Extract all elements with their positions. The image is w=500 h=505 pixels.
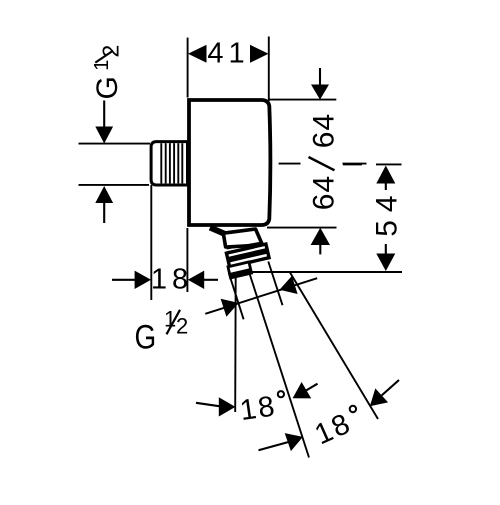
angle 18 first arrow left (219, 397, 236, 416)
angle 18 first text (238, 390, 278, 427)
spray edge line 36deg (290, 273, 378, 420)
dimension 64/64 top extension line (269, 99, 336, 101)
dimension 18 right leader (203, 279, 218, 281)
svg-text:18: 18 (151, 264, 193, 296)
angle 18 second leader left (259, 442, 289, 450)
angle 18 first leader left (196, 403, 220, 407)
dimension 64/64 top arrow stem (319, 68, 321, 87)
nozzle G1/2 arrowhead A (221, 299, 239, 317)
angle 18 second leader right (382, 380, 399, 395)
dimension 54 top stem (385, 182, 387, 190)
svg-text:64: 64 (308, 175, 341, 210)
dimension 64/64 top arrowhead (311, 85, 329, 100)
angle 18 second arrow right (370, 388, 388, 406)
nozzle thread extension line A (229, 273, 244, 319)
dimension 64/64 bottom arrow stem (319, 244, 321, 254)
dimension 41 arrow left (188, 45, 207, 63)
pipe thread hatch lines (161, 143, 182, 183)
dimension 41 arrow right (250, 45, 269, 63)
body escutcheon outline (189, 100, 270, 225)
outlet horizontal reference line (229, 271, 403, 273)
svg-text:2: 2 (97, 45, 123, 58)
dimension 64/64 middle tick right (343, 163, 367, 165)
angle 18 second text (310, 407, 356, 451)
label G1/2 (bottom) (134, 306, 188, 356)
dimension 18 left arrowhead (135, 271, 151, 289)
thread G1/2 top extension line (79, 143, 151, 145)
dimension 54 text (371, 187, 404, 236)
dimension 54 top tick a (343, 163, 362, 165)
label G1/2 rotated (top left) (91, 76, 124, 99)
nozzle thread extension line B (268, 262, 282, 306)
plumb vertical line (234, 273, 237, 412)
dimension 64/64 bottom extension line (267, 227, 337, 229)
thread G1/2 dim stem above (103, 101, 105, 129)
dimension 54 top arrowhead (376, 166, 395, 184)
dimension 41 extension line right (268, 37, 270, 102)
nozzle housing (223, 229, 262, 247)
svg-text:2: 2 (176, 313, 188, 338)
angle 18 first leader right (305, 384, 317, 391)
svg-text:G: G (91, 76, 124, 99)
nozzle G1/2 dimension line (205, 278, 317, 314)
svg-text:41: 41 (207, 38, 249, 70)
dimension 41 extension line left (187, 38, 189, 98)
dimension 64/64 middle tick left (279, 163, 301, 165)
nozzle seam line 1 (227, 243, 262, 249)
svg-text:G: G (134, 318, 156, 356)
nozzle G1/2 arrowhead B (280, 276, 298, 294)
dimension 18 right extension line (186, 228, 188, 292)
dimension 54 top tick b (376, 163, 402, 165)
svg-text:18: 18 (238, 390, 278, 427)
dimension 64/64 bottom arrowhead (311, 228, 330, 245)
dimension 54 bottom stem (385, 244, 387, 254)
dimension 18 right arrowhead (188, 271, 204, 289)
nozzle knurled nut (226, 244, 269, 267)
thread G1/2 dim stem below (103, 202, 105, 224)
thread G1/2 down arrowhead (95, 127, 113, 144)
spray axis line 18deg (250, 274, 310, 458)
angle 18 second arrow left (285, 433, 303, 451)
nozzle pivot tab (210, 228, 225, 235)
svg-text:1: 1 (91, 60, 113, 71)
dimension 64/64 text (308, 113, 341, 148)
angle 18 first arrow right (293, 382, 312, 398)
thread G1/2 up arrowhead (95, 186, 113, 203)
threaded pipe outline (151, 142, 187, 185)
svg-text:64: 64 (308, 113, 341, 148)
nozzle seam line 2 (227, 246, 262, 252)
thread G1/2 bottom extension line (79, 184, 150, 186)
dimension 18 left leader (112, 279, 136, 281)
dimension 18 left extension line (150, 185, 152, 300)
nozzle outlet cap (228, 262, 252, 278)
dimension 54 bottom arrowhead (376, 254, 395, 272)
svg-text:54: 54 (371, 187, 404, 236)
